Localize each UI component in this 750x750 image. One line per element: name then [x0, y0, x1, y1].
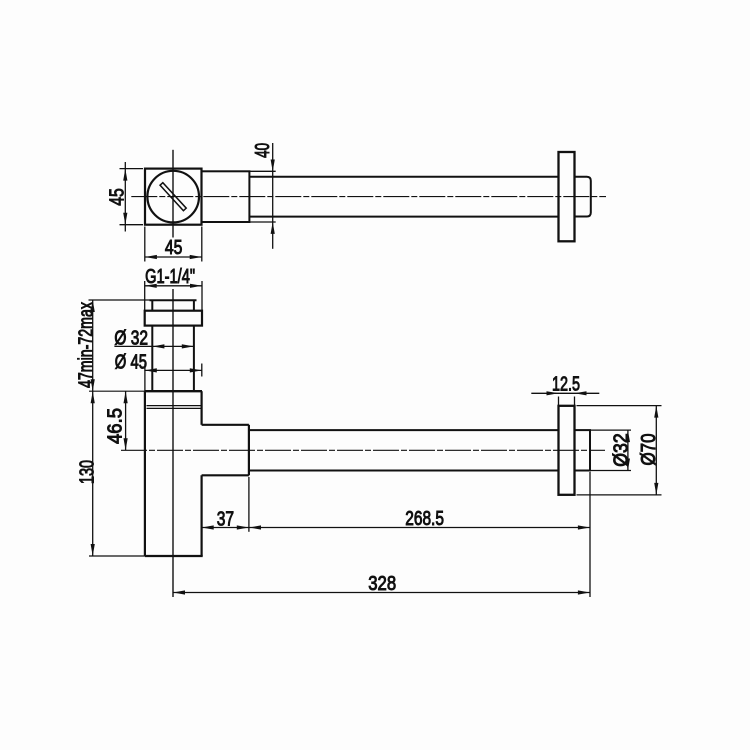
- top view: circle (pipe boss): [147, 171, 199, 223]
- front view: outlet boss face: [248, 425, 250, 476]
- svg-text:12.5: 12.5: [552, 374, 580, 396]
- front view: trap body bottom (with thin left extension): [89, 555, 145, 557]
- svg-text:Ø 32: Ø 32: [114, 327, 148, 349]
- top view: horizontal centerline: [131, 196, 606, 198]
- front view: top cap flange: [145, 311, 202, 326]
- dim 47min-72max: extension line at thread top: [89, 299, 150, 301]
- dim O32 outlet: dimension line: [627, 430, 629, 470]
- dim 268.5: arrowheads: [249, 525, 590, 529]
- top view: outlet tube top line: [249, 176, 558, 178]
- front view: thread top line: [150, 299, 197, 301]
- dim 37 and 268.5: extension lines: [201, 477, 203, 532]
- svg-text:46.5: 46.5: [104, 408, 126, 444]
- svg-text:40: 40: [252, 143, 274, 158]
- svg-text:Ø 45: Ø 45: [115, 352, 147, 374]
- dim 46.5: dimension line: [125, 391, 127, 450]
- dim 328: dimension line: [173, 592, 590, 594]
- front view: thread right wall: [193, 300, 195, 311]
- dim O45 cap: arrowheads: [145, 368, 202, 372]
- dim 45 horizontal: dimension line: [145, 256, 202, 258]
- dim G1-1/4: dimension line: [145, 285, 202, 287]
- dim O70: extension lines: [577, 405, 662, 407]
- front view: outlet tube bottom line: [249, 470, 559, 472]
- front view: inlet tube left wall: [151, 326, 153, 392]
- dim 40: arrowheads outside pointing inward: [271, 160, 275, 234]
- front view: outlet boss top: [202, 424, 249, 426]
- dim O32 outlet: arrowheads: [626, 430, 630, 470]
- top view: end stub cap rounded: [575, 177, 591, 217]
- front view: trap body right wall lower: [201, 475, 203, 556]
- front view: inlet tube right wall: [193, 326, 195, 392]
- front view: outlet tube top line: [249, 429, 559, 431]
- dim O45 cap: left extension segment: [144, 364, 146, 392]
- dim 12.5: arrowheads outside pointing inward: [547, 391, 587, 395]
- svg-text:37: 37: [217, 508, 234, 530]
- dim 130: dimension line: [92, 391, 94, 556]
- svg-text:45: 45: [106, 188, 128, 206]
- front view: thread left wall: [151, 300, 153, 311]
- dim 130: arrowheads: [91, 391, 95, 556]
- top view: square escutcheon body 45x45: [145, 169, 202, 225]
- top view: vertical centerline of square: [172, 150, 174, 238]
- dim 40: dimension line: [272, 143, 274, 249]
- front view: slip nut top line (with thin left extension): [89, 390, 145, 392]
- dim 45 vertical: extension lines: [120, 168, 144, 170]
- top view: wall flange: [559, 152, 575, 241]
- front view: outlet horizontal centerline: [121, 449, 605, 451]
- dim 47min-72max: dimension line: [92, 300, 94, 391]
- dim O45 cap: dimension line: [144, 369, 201, 371]
- svg-text:328: 328: [368, 573, 396, 595]
- top view: screw slot slash: [160, 183, 186, 211]
- svg-text:Ø32: Ø32: [610, 433, 632, 466]
- svg-text:268.5: 268.5: [405, 508, 444, 530]
- front view: nut lip double line: [147, 405, 201, 407]
- dim O32 outlet: extension lines: [590, 429, 631, 431]
- dim 12.5: extension lines above flange: [558, 397, 560, 406]
- dim O32 inlet: dimension line with leader under text: [114, 345, 193, 347]
- dim 46.5: arrowheads: [124, 391, 128, 450]
- dim 328: arrowheads: [173, 590, 590, 594]
- dim O45 cap: right extension segment: [201, 364, 203, 377]
- front view: inlet vertical centerline: [172, 289, 174, 597]
- top view: collar bottom extension line for dim 40: [249, 221, 275, 223]
- dim 37 and 268.5: shared dimension line: [202, 527, 590, 529]
- dim O70: arrowheads: [654, 406, 658, 495]
- top view: collar top extension line for dim 40: [249, 170, 275, 172]
- front view: wall flange: [559, 406, 575, 495]
- dim 45 horizontal: extension lines: [144, 227, 146, 262]
- dim 45 vertical: dimension line: [124, 162, 126, 232]
- dim 12.5: dimension line: [531, 392, 599, 394]
- dim 37: arrowheads: [202, 525, 249, 529]
- dim 328: right extension line from stub: [589, 472, 591, 597]
- svg-text:130: 130: [77, 460, 99, 484]
- dim 45 horizontal: arrowheads: [145, 255, 202, 259]
- top view: outlet tube bottom line: [249, 216, 558, 218]
- dim 45 vertical: arrowheads: [123, 169, 127, 225]
- top view: collar 40 high: [202, 171, 250, 222]
- front view: trap body right wall upper: [201, 391, 203, 425]
- dim O32 inlet: arrowheads: [152, 344, 193, 348]
- svg-text:Ø70: Ø70: [638, 434, 660, 466]
- dim G1-1/4: extension lines down to cap: [144, 281, 146, 311]
- dim G1-1/4: arrowheads: [145, 284, 202, 288]
- front view: trap body left wall: [144, 391, 146, 556]
- dim O70: dimension line: [655, 406, 657, 495]
- front view: end stub: [575, 430, 591, 470]
- svg-text:47min-72max: 47min-72max: [75, 302, 97, 388]
- front view: outlet boss bottom: [202, 474, 249, 476]
- dim 47min-72max: arrowheads: [91, 300, 95, 391]
- svg-text:45: 45: [165, 237, 183, 259]
